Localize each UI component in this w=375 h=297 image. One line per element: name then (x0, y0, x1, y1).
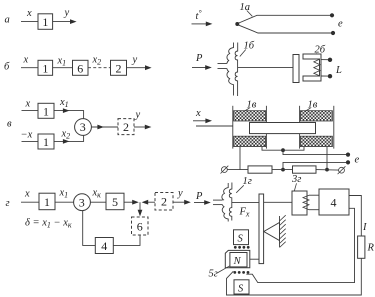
svg-text:P: P (195, 53, 203, 64)
wire x input (21, 201, 39, 203)
svg-text:y: y (64, 8, 70, 19)
box 5 (106, 193, 124, 210)
svg-text:e: e (355, 155, 360, 166)
wire -x input bottom (22, 140, 39, 142)
svg-text:y: y (135, 110, 141, 121)
bellows 1b port lines (218, 63, 227, 65)
right coil winding bottom (300, 136, 332, 146)
svg-text:6: 6 (77, 61, 83, 75)
svg-text:2: 2 (161, 195, 167, 209)
terminal dot upper (330, 13, 334, 17)
dashed box 2 (118, 119, 134, 135)
leader 3g (294, 183, 296, 191)
svg-text:1г: 1г (243, 176, 252, 187)
junction arrow down to box 6 (139, 202, 141, 211)
left coil winding top (234, 111, 266, 121)
wire amplifier to coil inner (246, 208, 354, 282)
svg-text:x: x (195, 108, 201, 119)
coil lead lower (321, 75, 329, 77)
push rod to armature (238, 67, 293, 69)
right coil flange right (333, 106, 335, 149)
svg-text:4: 4 (331, 196, 337, 210)
svg-text:6: 6 (137, 220, 143, 234)
wire x input (21, 21, 38, 23)
dashed box 2 (155, 193, 173, 211)
detector coil zigzag 3g (303, 195, 309, 210)
inductive core C-shape (303, 54, 321, 81)
wire from box2 back to junction (147, 201, 155, 203)
coil former (225, 250, 250, 267)
amplifier box 4 (319, 189, 349, 215)
detector core 3g (292, 191, 307, 215)
svg-text:б: б (4, 62, 10, 73)
svg-text:−x: −x (21, 130, 33, 141)
pivot hatching (280, 215, 286, 247)
svg-text:2: 2 (123, 120, 129, 134)
lever bar (259, 194, 264, 264)
wire to junction (124, 201, 133, 203)
right coil winding top (300, 111, 332, 121)
terminal dot upper (328, 58, 332, 62)
leader 1v right (305, 108, 311, 111)
svg-text:x: x (25, 99, 31, 110)
svg-text:1а: 1а (240, 2, 251, 13)
svg-text:1: 1 (43, 104, 49, 118)
junction dot C (325, 168, 329, 172)
svg-text:L: L (335, 65, 342, 76)
rod lever to detector core (264, 201, 292, 203)
feedback wire from adder to box 4 (83, 211, 96, 246)
bottom rail segment 2 (272, 169, 293, 171)
wire y output (53, 21, 71, 23)
magnet pole S bottom (234, 280, 249, 294)
svg-text:S: S (238, 283, 244, 294)
leader 1g (236, 185, 244, 193)
svg-text:1: 1 (44, 195, 50, 209)
wire left coil inner end to junction A (262, 147, 304, 151)
left coil flange left (232, 106, 234, 149)
wire y output (134, 126, 146, 128)
svg-text:г: г (6, 198, 10, 209)
coil zigzag 2b (314, 59, 320, 76)
detector leads to amplifier (309, 194, 319, 196)
wire to dashed box 2 (91, 126, 118, 128)
wire x input top (22, 110, 39, 112)
wire x1 (55, 201, 74, 203)
terminal dot lower (328, 74, 332, 78)
wire xk (90, 201, 106, 203)
junction dot B (281, 168, 285, 172)
svg-text:e: e (338, 19, 343, 30)
svg-text:S: S (238, 234, 244, 245)
pivot triangle (264, 223, 280, 241)
svg-text:P: P (195, 191, 203, 202)
leader 1b (240, 50, 246, 57)
svg-text:I: I (362, 222, 367, 233)
wire x1 (53, 67, 73, 69)
input rod (196, 125, 233, 127)
armature plate (293, 55, 299, 83)
coil dots row 1 (234, 246, 237, 249)
pivot wall line (279, 216, 281, 247)
box 1 (38, 60, 53, 75)
box 1 top (38, 103, 54, 118)
svg-text:1: 1 (42, 61, 48, 75)
supply terminal right (339, 167, 345, 173)
svg-text:1: 1 (42, 15, 48, 29)
svg-text:5: 5 (112, 195, 118, 209)
feedback wire from box 6 to box 4 (113, 235, 140, 245)
leader 1v left (244, 108, 250, 111)
bellows 1b right wall (235, 43, 238, 97)
wire y output (173, 201, 186, 203)
svg-text:N: N (233, 256, 242, 267)
bottom rail segment 3 (316, 169, 339, 172)
wire x1 into adder (54, 111, 84, 119)
resistor R (358, 236, 365, 258)
svg-text:x: x (26, 8, 32, 19)
thermocouple wire upper (239, 15, 331, 23)
right coil flange left (299, 106, 301, 149)
wire right coil outer end down (326, 147, 328, 170)
bellows 1b left wall (227, 43, 234, 96)
svg-text:1: 1 (43, 135, 49, 149)
plunger core (250, 123, 316, 134)
leader 2b (311, 54, 317, 58)
connector coil to lever (250, 258, 259, 260)
box 4 (95, 238, 113, 254)
wire amplifier to R (349, 196, 361, 237)
box 1 bottom (38, 134, 54, 149)
bellows 1g right wall (229, 183, 232, 221)
terminal dot lower (331, 31, 335, 35)
svg-text:3: 3 (79, 195, 85, 209)
svg-text:y: y (177, 188, 183, 199)
dashed wire x2 (88, 67, 111, 69)
box 1 (39, 193, 55, 210)
svg-text:4: 4 (101, 239, 107, 253)
box 1 (38, 14, 53, 29)
wire left coil outer end down (239, 147, 241, 170)
thermocouple hot junction dot (235, 22, 239, 26)
magnet pole N (230, 253, 247, 267)
svg-text:y: y (132, 55, 138, 66)
svg-text:x: x (24, 189, 30, 200)
adder circle 3 (75, 119, 92, 136)
svg-text:R: R (367, 243, 375, 254)
force rod to lever (232, 201, 259, 203)
terminal dot e lower (346, 160, 350, 164)
terminal dot e upper (346, 153, 350, 157)
junction dot A (281, 148, 285, 152)
svg-text:в: в (7, 119, 12, 130)
wire x input (21, 67, 38, 69)
svg-text:2: 2 (116, 61, 122, 75)
wire x2 into adder (54, 135, 84, 141)
dashed box 6 (132, 217, 149, 235)
bellows 1g left wall (222, 183, 228, 222)
supply terminal left (222, 167, 228, 173)
svg-text:x: x (23, 55, 29, 66)
box 6 (73, 60, 89, 75)
coil dots row 2 (233, 271, 236, 274)
thermocouple wire lower (239, 25, 332, 33)
resistor box 2 (293, 166, 317, 173)
wire R to yoke bottom (227, 258, 362, 295)
wire from B to e terminal lower (283, 162, 348, 169)
magnet pole S top (234, 230, 249, 245)
svg-text:3: 3 (80, 120, 86, 134)
leader 5g (218, 266, 230, 273)
box 2 (111, 60, 127, 75)
resistor box 1 (248, 166, 272, 173)
leader 1a (247, 11, 253, 17)
svg-text:5г: 5г (209, 269, 218, 280)
wire from A to e terminal upper (283, 150, 348, 154)
bottom rail segment 1 (227, 169, 248, 171)
wire y output (127, 67, 147, 69)
coil lead upper (321, 59, 329, 61)
svg-text:а: а (5, 15, 10, 26)
bellows 1g port lines (213, 199, 222, 201)
left coil winding bottom (234, 136, 266, 146)
adder circle 3 (74, 194, 91, 211)
left coil flange right (265, 106, 267, 149)
